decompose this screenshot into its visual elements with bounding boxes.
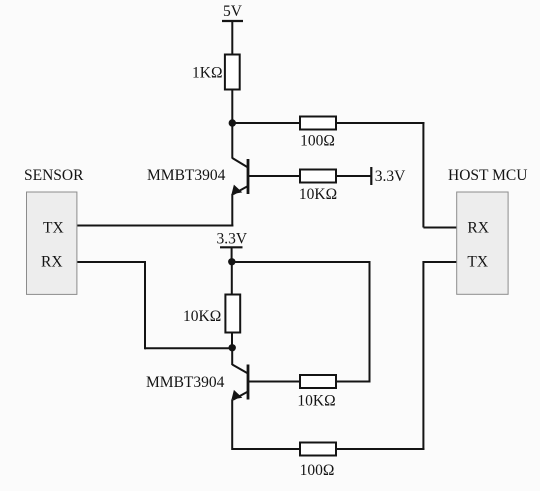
svg-text:3.3V: 3.3V bbox=[217, 231, 248, 248]
wire R4 bottom to node C bbox=[231, 333, 233, 349]
svg-text:100Ω: 100Ω bbox=[300, 462, 335, 479]
junction node A bbox=[229, 119, 236, 126]
SENSOR block bbox=[27, 192, 77, 294]
svg-text:RX: RX bbox=[467, 219, 489, 236]
wire node A to R2 left bbox=[232, 122, 300, 124]
wire Q2 base to R5 left bbox=[248, 381, 300, 383]
svg-text:MMBT3904: MMBT3904 bbox=[147, 167, 226, 184]
wire corner to R5 right bbox=[336, 381, 370, 383]
power terminal bar 5V bbox=[222, 20, 243, 22]
resistor R1 1KΩ bbox=[225, 55, 240, 90]
svg-text:10KΩ: 10KΩ bbox=[297, 392, 335, 409]
wire right bus up to host TX level bbox=[422, 261, 424, 450]
svg-text:10KΩ: 10KΩ bbox=[183, 308, 221, 325]
junction node C bbox=[229, 344, 236, 351]
wire SENSOR RX right segment bbox=[77, 261, 146, 263]
wire R3 right to 3.3V terminal bbox=[336, 175, 371, 177]
svg-text:TX: TX bbox=[467, 254, 488, 271]
wire node C to Q2 collector bbox=[231, 348, 233, 365]
svg-text:10KΩ: 10KΩ bbox=[299, 186, 337, 203]
wire SENSOR RX to node C bbox=[145, 347, 232, 349]
resistor R5 10KΩ bbox=[300, 375, 336, 388]
svg-text:RX: RX bbox=[41, 254, 63, 271]
HOST MCU block bbox=[457, 192, 508, 294]
wire Q1 base to R3 left bbox=[248, 175, 300, 177]
resistor R3 10KΩ bbox=[300, 170, 336, 183]
wire to HOST MCU RX pin bbox=[423, 227, 457, 229]
wire node A to Q1 collector bbox=[231, 123, 233, 159]
transistor Q2 MMBT3904 bbox=[232, 365, 249, 400]
svg-text:1KΩ: 1KΩ bbox=[192, 65, 222, 82]
wire down right of R5 bbox=[369, 261, 371, 383]
wire 5V bar to R1 top bbox=[231, 21, 233, 55]
power terminal bar 3.3V (mid rail) bbox=[220, 246, 243, 248]
svg-text:MMBT3904: MMBT3904 bbox=[146, 374, 225, 391]
svg-text:5V: 5V bbox=[223, 3, 243, 20]
wire Q2 emitter down bbox=[231, 400, 233, 451]
wire SENSOR RX down segment bbox=[144, 261, 146, 349]
wire Q1 emitter down to sensor TX line bbox=[231, 194, 233, 227]
power terminal bar 3.3V (Q1 base pull-up) bbox=[370, 167, 372, 185]
wire emitter to R6 left bbox=[232, 448, 300, 450]
svg-text:HOST MCU: HOST MCU bbox=[448, 167, 527, 184]
svg-text:3.3V: 3.3V bbox=[375, 168, 406, 185]
wire node B right to corner bbox=[232, 261, 371, 263]
transistor Q1 MMBT3904 bbox=[232, 158, 249, 194]
wire to HOST MCU TX pin bbox=[423, 261, 457, 263]
svg-text:TX: TX bbox=[43, 220, 64, 237]
wire 3.3V bar to node B bbox=[231, 247, 233, 262]
wire R1 bottom to node A bbox=[231, 90, 233, 124]
wire R6 right to corner bbox=[336, 448, 424, 450]
wire R2 right to corner bbox=[336, 122, 424, 124]
junction node B bbox=[228, 258, 235, 265]
svg-text:SENSOR: SENSOR bbox=[24, 167, 84, 184]
resistor R4 10KΩ bbox=[225, 295, 240, 333]
wire SENSOR TX to Q1 emitter bbox=[77, 225, 233, 227]
wire node B down to R4 top bbox=[231, 262, 233, 295]
resistor R6 100Ω bbox=[300, 443, 336, 456]
resistor R2 100Ω bbox=[300, 117, 336, 130]
wire right bus down to host RX level bbox=[422, 122, 424, 228]
svg-text:100Ω: 100Ω bbox=[300, 133, 335, 150]
